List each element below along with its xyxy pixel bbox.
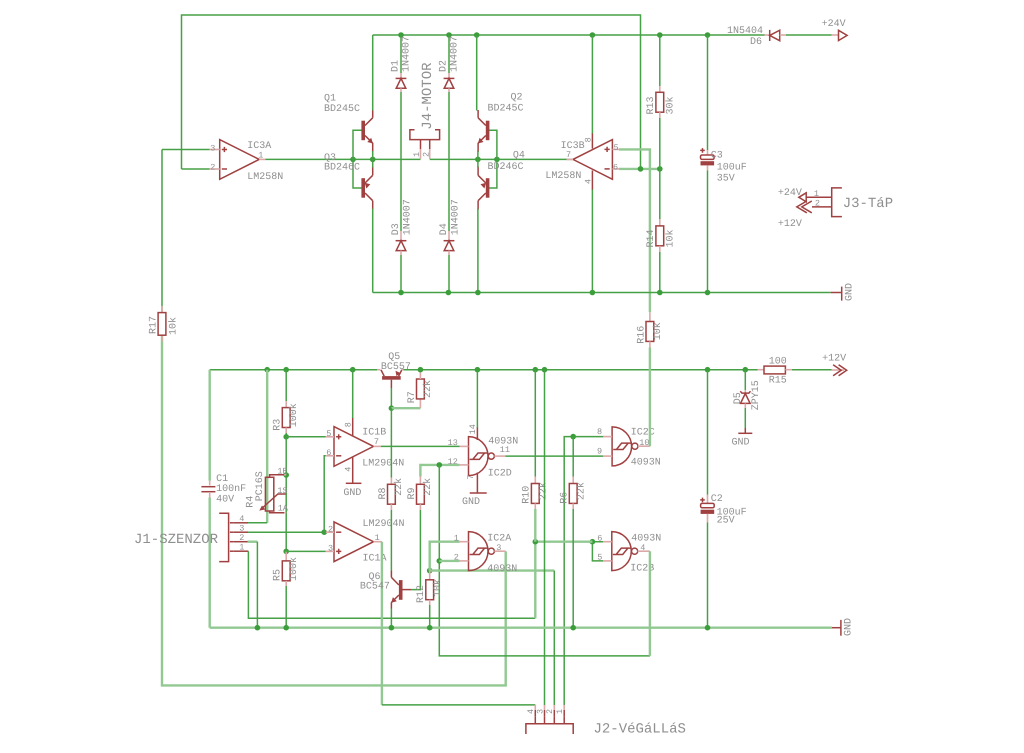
resistor R7 [407,373,434,409]
svg-text:+12V: +12V [778,219,802,230]
svg-text:D6: D6 [750,37,762,48]
resistor R13 [646,35,676,169]
svg-text:BD246C: BD246C [488,162,524,173]
wire IC2D pin14 to rail [476,370,478,428]
wire Q5 base down [390,388,392,408]
wire R8 to Q6 collector [390,510,392,571]
nand IC2A [454,532,518,575]
svg-text:10k: 10k [652,322,664,340]
svg-text:10k: 10k [664,229,676,247]
node R12 top [427,568,433,574]
svg-text:1S: 1S [277,486,287,496]
svg-text:100: 100 [769,357,787,368]
wire IC3B pin4 to gnd [591,190,593,293]
wire IC2A pin2 [439,560,459,562]
ground symbol top right [831,283,856,301]
svg-text:100k: 100k [288,557,300,581]
svg-text:D3: D3 [391,223,402,235]
svg-text:IC2D: IC2D [488,468,512,479]
svg-text:4: 4 [640,543,645,553]
wire x439 column [439,465,650,656]
wire R10 net [535,541,592,543]
supply +24V arrow [822,19,848,41]
wire IC1B out to IC2D pin13 [381,445,460,447]
wire R9 to Q6 base [411,510,420,590]
diode D3 [391,159,414,292]
diode D1 [391,35,413,159]
svg-text:10: 10 [639,438,649,448]
svg-text:IC1B: IC1B [362,427,386,438]
svg-text:14: 14 [468,424,478,434]
node R3 bottom [283,434,289,440]
svg-text:IC2A: IC2A [487,534,511,545]
svg-text:R8: R8 [378,487,389,499]
zener D5 [732,370,762,449]
+24V rail [373,34,765,36]
nand IC2C [597,427,661,468]
wire R5 node to IC1A pin3 [286,550,326,552]
wire R3 node down [285,437,287,552]
diode D2 [439,35,461,159]
capacitor C1 [201,474,246,505]
svg-text:R6: R6 [560,492,571,504]
wire Q1 collector to +24V [372,35,374,111]
svg-text:4: 4 [239,514,244,524]
svg-text:GND: GND [845,283,856,301]
svg-text:35V: 35V [717,173,735,184]
wire IC3B pin5 [619,149,650,312]
resistor R10 [522,370,550,542]
svg-text:4: 4 [344,467,354,472]
svg-text:22k: 22k [422,478,434,496]
wire Q6 emitter to ground line [390,609,392,628]
wire J1 pin4 column [266,370,268,523]
svg-text:C2: C2 [711,494,723,505]
op-amp IC3A [210,140,284,183]
resistor R16 [637,312,665,446]
svg-text:1N4007: 1N4007 [403,199,414,235]
wire IC3A out to bases [266,158,421,160]
nand IC2D [448,424,519,508]
svg-text:2: 2 [239,533,244,543]
svg-text:1: 1 [454,534,459,544]
svg-text:22k: 22k [422,380,434,398]
wire D6 to +24V arrow [786,34,832,36]
svg-text:R3: R3 [273,419,284,431]
resistor R9 [407,477,434,511]
svg-text:100k: 100k [288,403,300,427]
wire IC1B pin12 net [420,465,459,477]
wire IC3A pin2 [182,168,210,170]
wire Q1 emitter to node [372,151,374,159]
diode D6 1N5404 [727,26,786,48]
resistor R6 [560,437,588,628]
svg-text:1N4007: 1N4007 [402,36,413,72]
svg-text:R5: R5 [273,569,284,581]
gnd rail top [373,292,831,294]
wire IC2B pins tie [592,542,603,561]
connector J1-SZENZOR [134,513,248,561]
svg-text:1N5404: 1N5404 [727,26,763,37]
svg-text:BD245C: BD245C [324,104,360,115]
svg-text:3: 3 [210,143,215,153]
wire IC2D out to IC2C pin9 [506,455,604,457]
svg-text:2: 2 [545,709,555,714]
connector J4-MOTOR [410,62,440,159]
svg-text:PC16S: PC16S [255,471,266,501]
wire Q5 node to R7 [391,407,420,409]
svg-text:J4-MOTOR: J4-MOTOR [420,62,436,130]
diode D4 [439,159,462,292]
svg-text:1E: 1E [277,467,287,477]
svg-text:BC547: BC547 [360,581,390,592]
svg-text:3: 3 [328,543,333,553]
svg-text:LM258N: LM258N [247,172,283,183]
wire feedback top [182,15,641,169]
svg-text:3: 3 [536,709,546,714]
svg-text:10k: 10k [168,317,180,335]
svg-text:30k: 30k [664,96,676,114]
wire IC3A pin3 [162,149,210,151]
svg-text:2: 2 [421,152,431,157]
svg-text:+12V: +12V [822,353,846,364]
svg-text:R7: R7 [407,391,418,403]
svg-text:12: 12 [448,457,458,467]
wire node to Q3 emitter [372,159,374,167]
wire IC3B pin6 [619,168,660,170]
svg-text:R15: R15 [769,376,787,387]
svg-text:ZPY15: ZPY15 [751,380,762,410]
svg-text:BC557: BC557 [381,362,411,373]
transistor Q2 [478,93,524,153]
wire Q3 collector to gnd rail [372,209,374,293]
svg-text:6: 6 [326,448,331,458]
svg-text:BD245C: BD245C [488,103,524,114]
svg-text:5: 5 [614,143,619,153]
wire R17 column [161,150,163,313]
transistor Q4 [478,150,525,209]
svg-text:1N4007: 1N4007 [451,199,462,235]
svg-text:Q4: Q4 [513,150,525,161]
wire IC3B pin8 to +24V [591,35,593,134]
svg-text:R16: R16 [637,326,648,344]
transistor Q1 [324,94,373,152]
ground line lower [210,627,832,629]
wire IC2A pin1 net [430,542,460,571]
svg-text:1: 1 [412,152,422,157]
svg-text:4093N: 4093N [487,564,517,575]
svg-text:1N4007: 1N4007 [450,36,461,72]
svg-text:IC2C: IC2C [631,427,655,438]
svg-text:1: 1 [375,533,380,543]
svg-text:2: 2 [328,524,333,534]
wire C1 to ground line [208,498,210,628]
svg-text:1A: 1A [278,504,289,514]
svg-text:7: 7 [466,474,476,479]
trimmer R4 PC16S [246,467,289,514]
svg-text:GND: GND [844,618,855,636]
svg-text:D1: D1 [391,60,402,72]
resistor R3 [273,370,300,437]
wire J1 pin3 to IC1A pin2 [248,531,324,533]
transistor Q5 [377,352,411,388]
wire J2 pin3 column [544,370,546,706]
wire base column Q1 Q3 [353,130,362,188]
svg-text:5: 5 [326,429,331,439]
svg-text:LM2904N: LM2904N [362,459,404,470]
svg-text:+24V: +24V [778,188,802,199]
op-amp IC3B [545,133,619,190]
svg-text:4093N: 4093N [631,457,661,468]
svg-text:R17: R17 [149,316,160,334]
connector J2-VeGaLLaS [526,705,686,737]
svg-text:1: 1 [239,542,244,552]
svg-text:1: 1 [814,189,819,199]
svg-text:D4: D4 [439,223,450,235]
svg-text:8: 8 [597,427,602,437]
wire R12 line to J2 pin2 [430,569,555,571]
svg-text:C3: C3 [711,151,723,162]
wire right half out [430,158,573,160]
svg-text:22k: 22k [575,482,587,500]
transistor Q3 [324,153,373,209]
op-amp IC1A [326,519,405,565]
svg-text:9: 9 [597,446,602,456]
resistor R15 [758,357,792,387]
svg-text:LM258N: LM258N [545,171,581,182]
svg-text:J3-TáP: J3-TáP [843,196,893,212]
svg-text:1: 1 [555,709,565,714]
capacitor C2 [700,370,746,628]
svg-text:4: 4 [526,709,536,714]
wire R3 node to IC1B pin5 [286,436,326,438]
svg-text:LM2904N: LM2904N [363,519,405,530]
svg-text:R14: R14 [646,229,657,247]
svg-text:8: 8 [584,137,594,142]
wire R17 to IC2A out [162,336,506,686]
wire Q2 collector to +24V [476,35,478,111]
svg-text:IC3A: IC3A [247,141,271,152]
resistor R5 [273,551,301,627]
svg-text:GND: GND [462,497,480,508]
svg-text:R10: R10 [522,486,533,504]
wire J1 pin2 down [248,541,258,543]
node left half-bridge out [370,157,376,163]
svg-text:22k: 22k [393,478,405,496]
svg-text:J2-VéGáLLáS: J2-VéGáLLáS [594,721,686,737]
svg-text:2: 2 [815,198,820,208]
svg-text:GND: GND [732,438,750,449]
+12V rail lower [210,369,378,371]
svg-text:40V: 40V [216,494,234,505]
svg-text:22k: 22k [537,482,549,500]
connector J3-TaP [778,188,893,230]
op-amp IC1B [326,418,404,500]
ground symbol lower right [832,618,855,636]
svg-text:100uF: 100uF [717,163,747,174]
supply +12V arrow [822,353,847,375]
transistor Q6 [360,571,411,609]
svg-text:D2: D2 [439,60,450,72]
svg-text:13: 13 [448,438,458,448]
wire C1 column [208,370,210,481]
wire IC2C pin8 net [564,437,603,706]
svg-text:25V: 25V [717,516,735,527]
wire IC1B pin8 to rail [352,370,354,418]
nand IC2B [597,532,661,575]
resistor R17 [149,306,180,342]
svg-text:6: 6 [613,163,618,173]
svg-text:4093N: 4093N [631,534,661,545]
svg-text:J1-SZENZOR: J1-SZENZOR [134,532,219,548]
svg-text:Q2: Q2 [511,93,523,104]
resistor R12 [416,571,444,628]
svg-text:4: 4 [584,179,594,184]
svg-text:R13: R13 [646,96,657,114]
capacitor C3 [700,35,747,293]
wire R8 column [390,408,392,477]
svg-text:8: 8 [344,422,354,427]
svg-text:+24V: +24V [822,19,846,30]
svg-text:BD246C: BD246C [324,163,360,174]
wire base column Q2 Q4 [489,130,497,188]
svg-text:IC3B: IC3B [561,141,585,152]
wire J1 pin1 down [248,551,535,618]
resistor R14 [646,169,676,293]
svg-text:D5: D5 [733,392,744,404]
wire IC2B out to latch [649,551,651,656]
svg-text:GND: GND [343,488,361,499]
wire IC1A out to J2 pin4 [381,542,383,705]
svg-text:2: 2 [454,553,459,563]
wire IC1B pin6 [324,456,326,532]
svg-text:R12: R12 [416,585,427,603]
svg-text:4093N: 4093N [488,437,518,448]
node Q1Q3 base [350,157,356,163]
svg-text:3: 3 [496,543,501,553]
svg-text:R9: R9 [407,487,418,499]
svg-text:2: 2 [210,163,215,173]
svg-text:10k: 10k [432,579,444,597]
resistor R8 [378,478,405,511]
